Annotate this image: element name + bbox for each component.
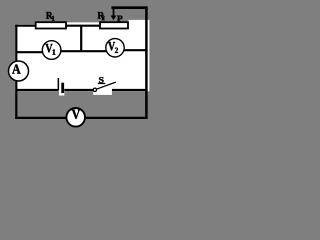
wire: battery row middle — [64, 89, 94, 91]
voltmeter V (bottom) — [66, 108, 85, 127]
resistor R1 — [36, 22, 66, 28]
label P — [117, 16, 122, 22]
battery long plate — [58, 78, 60, 91]
wire: meter row right segment — [124, 49, 147, 51]
switch white patch — [93, 83, 112, 95]
wire: top wire — [15, 25, 100, 27]
white panel (stepped top edge) — [15, 20, 149, 91]
wire: middle vertical junction wire — [80, 26, 82, 52]
wire: meter row left segment — [16, 51, 43, 53]
wire: battery row right — [112, 89, 146, 91]
wire: battery row left — [16, 89, 58, 91]
wire: slider vertical — [113, 8, 115, 16]
label S — [99, 77, 104, 83]
battery short thick plate — [61, 83, 64, 93]
wire: meter row middle segment — [61, 50, 107, 52]
switch terminal dot — [93, 88, 96, 91]
voltmeter V2 — [106, 39, 124, 57]
switch blade — [96, 82, 115, 89]
wire: left rail — [15, 25, 17, 119]
label R1 — [46, 12, 53, 19]
resistor R2 (rheostat) — [100, 22, 128, 28]
battery white patch — [59, 80, 64, 96]
wire: right rail — [145, 6, 148, 119]
label S underline — [98, 83, 106, 85]
wire: top loop horizontal (slider to right rail) — [111, 6, 147, 9]
slider arrowhead P — [111, 16, 117, 21]
wire: bottom wire — [15, 117, 147, 119]
voltmeter V1 — [42, 41, 61, 60]
ammeter A — [9, 61, 29, 81]
label R2 — [98, 12, 105, 19]
